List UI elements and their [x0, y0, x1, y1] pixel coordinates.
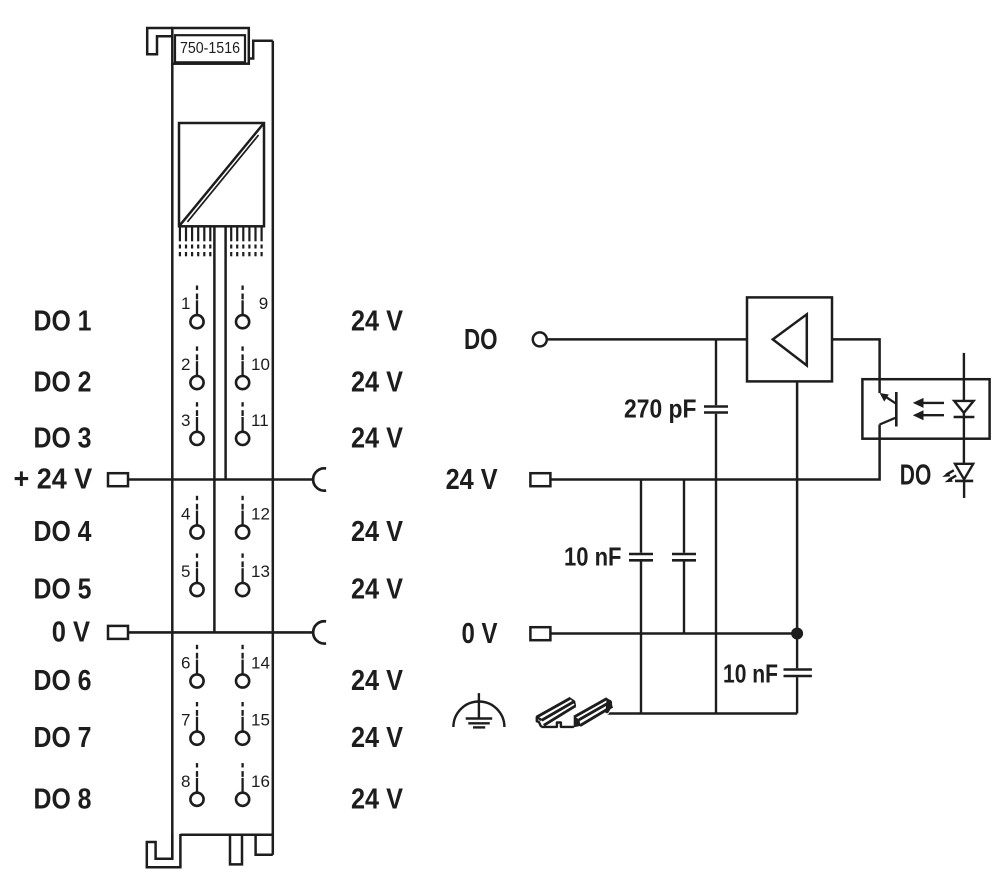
wire 0 V rail [550, 632, 797, 635]
svg-text:DO: DO [464, 324, 498, 356]
label 24 V row 2 [351, 367, 404, 399]
label 24 V row 8 [351, 783, 404, 815]
label DO 7 [34, 722, 92, 754]
wire capacitor C2 to earth [640, 562, 642, 714]
svg-text:9: 9 [259, 294, 268, 313]
svg-text:24 V: 24 V [351, 516, 404, 548]
terminal 14 contact [236, 645, 249, 688]
wire junction to capacitor C4 [796, 634, 798, 669]
label DO 4 [34, 516, 92, 548]
svg-text:3: 3 [181, 411, 190, 430]
terminal 5 contact [190, 553, 203, 596]
label 24 V (schematic) [446, 464, 499, 496]
indicator light arrows [942, 470, 956, 482]
label DO 3 [34, 422, 92, 454]
capacitor C1 plates [704, 407, 728, 413]
terminal 13 contact [236, 553, 249, 596]
label 24 V row 6 [351, 665, 404, 697]
label 750-1516 [180, 40, 240, 57]
wire LED D1 to indicator [963, 413, 965, 464]
electronics block pins [180, 226, 262, 256]
label 24 V row 7 [351, 722, 404, 754]
ground symbol [453, 693, 504, 727]
junction node 0 V [791, 628, 803, 640]
svg-text:24 V: 24 V [351, 422, 404, 454]
terminal 12 contact [236, 496, 249, 539]
svg-text:+ 24 V: + 24 V [14, 464, 93, 496]
svg-text:10: 10 [251, 355, 270, 374]
wire capacitor C2 branch [640, 480, 642, 553]
label 24 V row 4 [351, 516, 404, 548]
svg-text:13: 13 [251, 562, 270, 581]
terminal 15 contact [236, 702, 249, 745]
svg-text:24 V: 24 V [351, 574, 404, 606]
svg-text:5: 5 [181, 562, 190, 581]
module bottom edge wire [180, 834, 272, 837]
wire 0 V rail [128, 631, 312, 634]
label 10 nF (upper) [564, 541, 622, 571]
power feed contact arc 0 V [313, 621, 326, 643]
svg-text:24 V: 24 V [351, 722, 404, 754]
label DO indicator [900, 460, 932, 492]
optocoupler U3 box [862, 379, 989, 439]
phototransistor Q1 base bar [895, 392, 898, 427]
module top-left mounting hook [147, 28, 172, 54]
pin number 4 [181, 505, 190, 524]
internal bus wire right [224, 226, 227, 479]
terminal 10 contact [236, 346, 249, 389]
capacitor C3 plates [672, 554, 696, 560]
wire amplifier output [832, 339, 880, 393]
wire capacitor C3 to 0 V [683, 562, 685, 634]
module bottom right foot [256, 834, 273, 855]
svg-text:750-1516: 750-1516 [180, 40, 240, 57]
wire LED anode stub [963, 353, 965, 401]
pin number 9 [259, 294, 268, 313]
wire DO branch to capacitor C1 [715, 339, 717, 405]
LED D2 status indicator [955, 464, 973, 481]
svg-text:15: 15 [251, 711, 270, 730]
svg-text:12: 12 [251, 505, 270, 524]
pin number 6 [181, 654, 190, 673]
pin number 15 [251, 711, 270, 730]
wire capacitor C3 branch [683, 480, 685, 553]
label 24 V row 5 [351, 574, 404, 606]
svg-text:11: 11 [251, 411, 269, 430]
label DO 6 [34, 665, 92, 697]
svg-text:DO 8: DO 8 [34, 783, 92, 815]
terminal 9 contact [236, 286, 249, 329]
DIN rail earth symbol [535, 697, 613, 729]
svg-text:2: 2 [181, 355, 190, 374]
svg-text:24 V: 24 V [351, 665, 404, 697]
wire amplifier bottom to 0 V node [796, 381, 799, 633]
terminal 3 contact [190, 402, 203, 445]
module left edge wire [171, 63, 174, 858]
terminal 11 contact [236, 402, 249, 445]
wire + 24 V rail [128, 478, 312, 481]
svg-text:14: 14 [251, 654, 270, 673]
wire capacitor C1 to earth [715, 414, 717, 714]
pin number 10 [251, 355, 270, 374]
label DO 1 [34, 306, 92, 338]
LED D1 (optocoupler) [954, 401, 975, 417]
svg-text:24 V: 24 V [446, 464, 499, 496]
pin number 13 [251, 562, 270, 581]
label DO 2 [34, 367, 92, 399]
terminal circle DO [533, 332, 547, 346]
label DO input [464, 324, 498, 356]
amplifier U2 box [747, 297, 832, 381]
svg-text:10 nF: 10 nF [564, 541, 622, 571]
pin number 2 [181, 355, 190, 374]
svg-text:DO 3: DO 3 [34, 422, 92, 454]
optocoupler light arrow upper [913, 398, 944, 408]
wire capacitor C4 to earth [796, 677, 798, 713]
phototransistor Q1 collector [880, 393, 897, 404]
svg-text:DO 7: DO 7 [34, 722, 92, 754]
label 24 V row 1 [351, 306, 404, 338]
pin number 11 [251, 411, 269, 430]
terminal 4 contact [190, 496, 203, 539]
svg-text:24 V: 24 V [351, 783, 404, 815]
terminal 6 contact [190, 645, 203, 688]
electronics block thin diagonal [187, 135, 258, 222]
pin number 7 [181, 711, 190, 730]
terminal 7 contact [190, 702, 203, 745]
amplifier U2 triangle [773, 314, 807, 365]
module bottom-left mounting foot [147, 834, 181, 867]
label 270 pF [624, 393, 697, 423]
pin number 1 [181, 294, 190, 313]
wire earth rail [607, 712, 797, 715]
terminal 2 contact [190, 346, 203, 389]
svg-text:0 V: 0 V [52, 616, 91, 648]
electronics block U1 [179, 123, 264, 226]
svg-text:16: 16 [251, 772, 270, 791]
terminal 8 contact [190, 763, 203, 806]
pin number 5 [181, 562, 190, 581]
pin number 3 [181, 411, 190, 430]
terminal square + 24 V [108, 473, 128, 486]
svg-text:8: 8 [181, 772, 190, 791]
svg-text:0 V: 0 V [462, 618, 499, 650]
wire 24 V rail to optocoupler [550, 425, 879, 480]
svg-text:24 V: 24 V [351, 367, 404, 399]
power feed contact arc + 24 V [313, 468, 326, 490]
svg-text:DO: DO [900, 460, 932, 492]
svg-text:DO 1: DO 1 [34, 306, 92, 338]
module right edge wire [272, 41, 275, 855]
optocoupler light arrow lower [913, 410, 944, 420]
terminal square 0 V [530, 627, 550, 640]
pin number 16 [251, 772, 270, 791]
svg-text:1: 1 [181, 294, 190, 313]
capacitor C4 plates [784, 670, 812, 677]
capacitor C2 plates [629, 554, 653, 560]
label DO 5 [34, 574, 92, 606]
pin number 12 [251, 505, 270, 524]
wire LED D2 stub [963, 481, 965, 498]
svg-text:7: 7 [181, 711, 190, 730]
terminal square 0 V (module) [108, 626, 128, 639]
label 10 nF (lower) [723, 659, 778, 689]
label 24 V row 3 [351, 422, 404, 454]
module bottom middle foot [230, 834, 242, 864]
phototransistor Q1 emitter [880, 418, 897, 425]
svg-text:270 pF: 270 pF [624, 393, 697, 423]
svg-text:24 V: 24 V [351, 306, 404, 338]
svg-text:DO 2: DO 2 [34, 367, 92, 399]
terminal 16 contact [236, 763, 249, 806]
svg-text:6: 6 [181, 654, 190, 673]
label + 24 V [14, 464, 93, 496]
svg-text:DO 5: DO 5 [34, 574, 92, 606]
terminal 1 contact [190, 286, 203, 329]
electronics block diagonal [179, 123, 264, 226]
internal bus wire left [213, 226, 216, 632]
label 0 V (module) [52, 616, 91, 648]
pin number 14 [251, 654, 270, 673]
wire DO input [547, 338, 747, 341]
svg-text:DO 4: DO 4 [34, 516, 92, 548]
svg-text:4: 4 [181, 505, 190, 524]
svg-text:DO 6: DO 6 [34, 665, 92, 697]
pin number 8 [181, 772, 190, 791]
terminal square 24 V [530, 473, 550, 486]
label 0 V (schematic) [462, 618, 499, 650]
module 750-1516 marking label box [172, 28, 249, 64]
svg-text:10 nF: 10 nF [723, 659, 778, 689]
label DO 8 [34, 783, 92, 815]
module top-right step outline [249, 41, 273, 59]
